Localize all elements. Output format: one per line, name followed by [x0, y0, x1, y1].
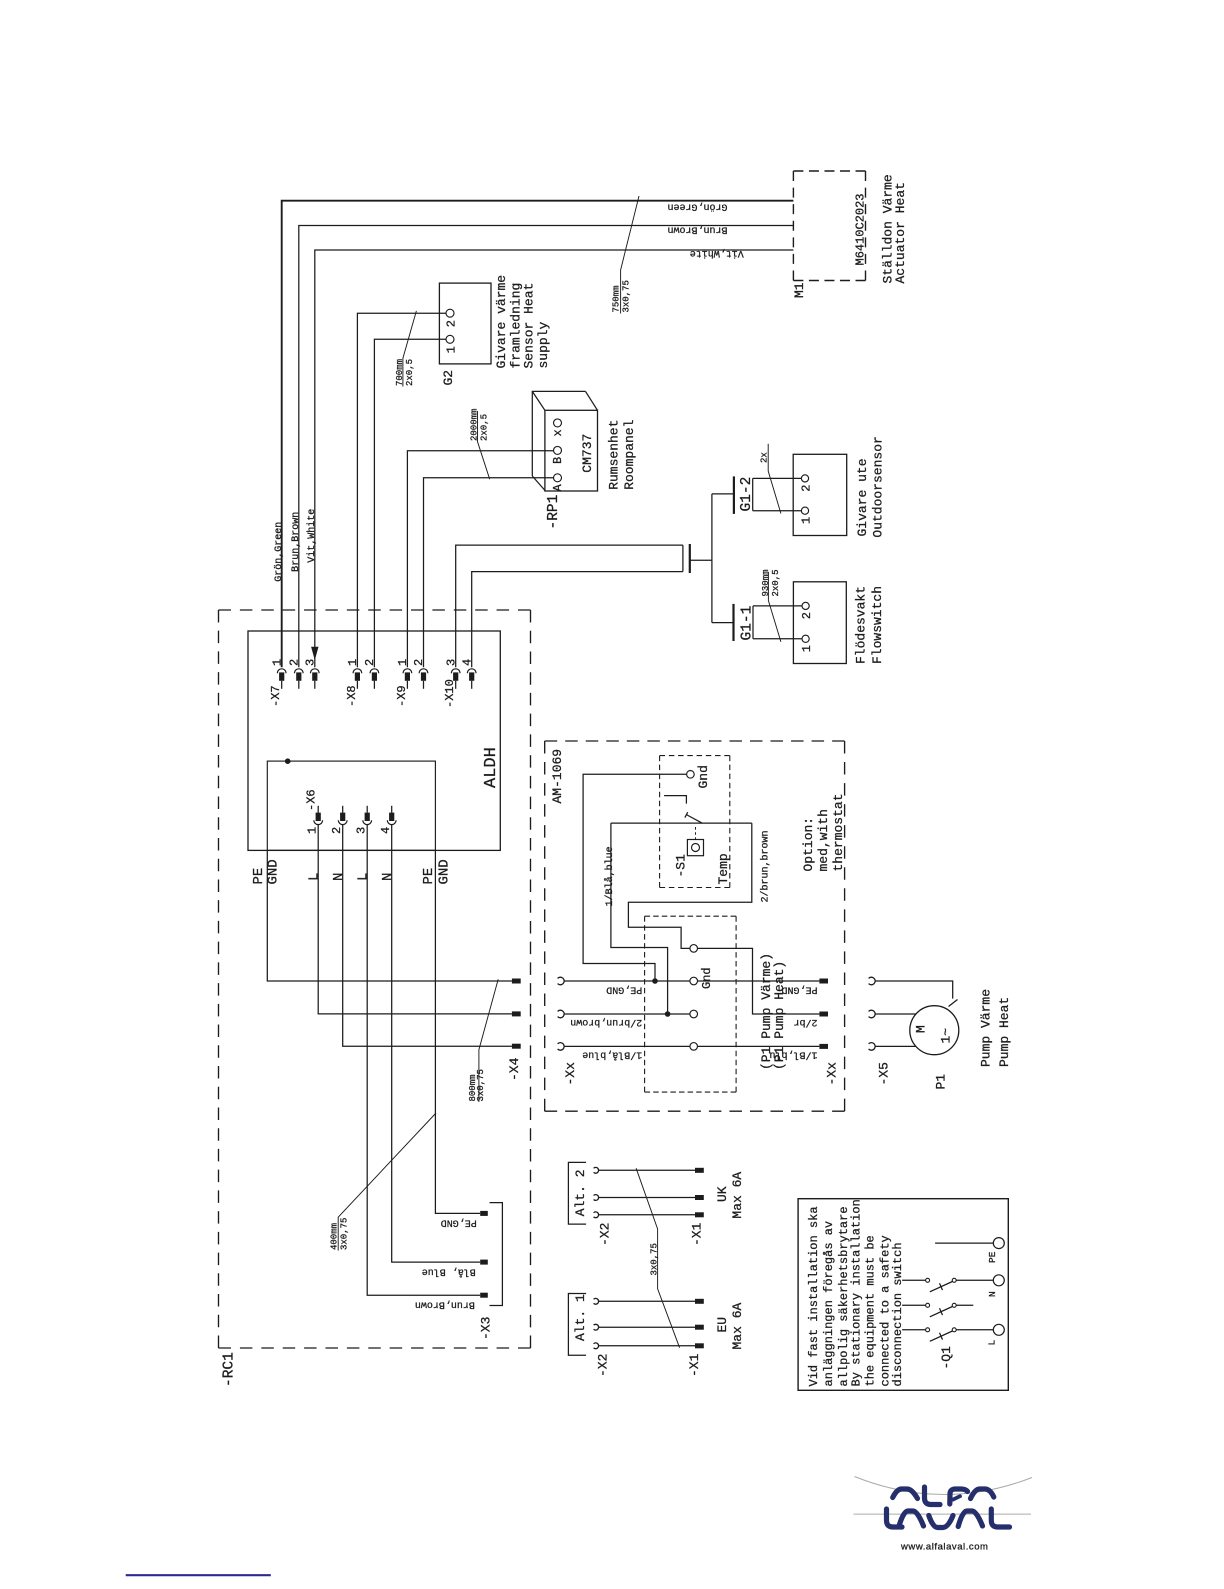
label Groen,Green (at -X7): [273, 522, 285, 582]
label 2000mm 2x0,5: [470, 409, 490, 441]
terminal -X6.1: [314, 806, 323, 825]
svg-text:AM-1069: AM-1069: [550, 749, 565, 804]
wire alt1 pin2: [599, 1326, 696, 1328]
X3 bracket: [490, 1203, 503, 1306]
wire X8.1 to G2 pin2: [357, 313, 446, 667]
label framledning: [509, 283, 524, 369]
label P1: [934, 1074, 949, 1090]
svg-text:A: A: [551, 484, 565, 492]
svg-text:4: 4: [460, 659, 474, 666]
terminal -X3.3: [480, 1293, 488, 1298]
terminal -X6.4: [387, 806, 396, 825]
svg-text:3: 3: [444, 659, 458, 666]
wire alt2 pin2: [599, 1197, 696, 1199]
terminal -X3.2: [480, 1260, 488, 1265]
label G1-2: [739, 477, 755, 512]
svg-text:700mm: 700mm: [395, 359, 405, 386]
svg-text:By stationary installation: By stationary installation: [850, 1199, 864, 1386]
G1-2 pin label 2: [800, 485, 814, 492]
RP1 pin A circle: [554, 474, 562, 482]
terminal X1 alt2 pin2: [695, 1195, 704, 1200]
svg-text:PE,GND: PE,GND: [441, 1217, 477, 1228]
hook -Xx brown: [558, 1010, 565, 1018]
svg-text:1: 1: [346, 659, 360, 666]
G1-1 pin 2 circle: [802, 602, 809, 609]
wire switch return: [628, 823, 751, 948]
label -X8: [345, 685, 359, 707]
hook X2 alt2 pin1: [594, 1167, 599, 1173]
relay dashed box: [645, 916, 737, 1092]
svg-text:M1: M1: [792, 282, 807, 298]
label 1/Bl,blu right: [769, 1048, 817, 1060]
arrow on wire X7.3: [311, 647, 318, 660]
svg-text:PE: PE: [421, 868, 437, 885]
pin label X6.4: [379, 827, 393, 834]
RP1 pin label x: [551, 429, 565, 436]
wire G1 branch vertical: [711, 494, 713, 623]
svg-text:M: M: [914, 1025, 929, 1033]
pair cable end bracket: [682, 545, 684, 572]
label Vit,White (at -X7): [306, 509, 318, 563]
label Actuator Heat: [893, 182, 908, 283]
pair connector bar: [689, 544, 691, 573]
terminal -X8.2: [370, 669, 379, 689]
svg-text:Gnd: Gnd: [696, 765, 711, 788]
hook X2 alt1 pin1: [594, 1298, 599, 1304]
svg-text:2: 2: [800, 612, 814, 619]
node dot on inner box: [285, 758, 291, 764]
leader 800mm: [479, 979, 498, 1102]
terminal -X7.2: [294, 669, 303, 689]
svg-text:Blå, Blue: Blå, Blue: [422, 1266, 476, 1279]
wire thermostat feed: [611, 823, 668, 1014]
label Groen,Green (upper): [667, 200, 727, 212]
svg-text:-X2: -X2: [596, 1354, 611, 1377]
hook X2 alt2 pin3: [594, 1212, 599, 1218]
label G2: [441, 370, 456, 386]
label PE GND left: [251, 859, 282, 884]
RP1 pin B circle: [554, 446, 562, 454]
terminal -X7.3: [310, 669, 319, 689]
svg-text:UK: UK: [715, 1186, 730, 1202]
label Max 6A UK: [730, 1172, 745, 1219]
label M1: [792, 282, 807, 298]
svg-text:750mm: 750mm: [611, 285, 621, 312]
svg-text:Vit,White: Vit,White: [306, 509, 318, 563]
svg-text:-X1: -X1: [687, 1353, 702, 1377]
terminal X1 alt2 pin3: [695, 1212, 704, 1217]
terminal -X4.3: [512, 1044, 521, 1049]
wire brown main: [564, 1013, 690, 1015]
svg-text:Pump Värme: Pump Värme: [978, 989, 993, 1067]
roompanel RP1 3D box: [532, 391, 597, 491]
svg-text:2x: 2x: [760, 452, 770, 463]
terminal -X10.4: [467, 669, 476, 689]
wire X5 brown to motor: [875, 1013, 916, 1015]
wire Gnd link to PE: [583, 774, 687, 981]
label -Q1: [939, 1346, 954, 1370]
terminal X1 alt1 pin3: [695, 1343, 704, 1348]
wire X7.2 to M1 (Brun,Brown): [299, 226, 794, 668]
G1-1 pin 1 circle: [802, 635, 809, 642]
pin label X10.3: [444, 659, 458, 666]
safety note box: [798, 1199, 1008, 1391]
label Max 6A EU: [730, 1302, 745, 1349]
leader 750mm: [621, 196, 639, 314]
PE tick at motor: [949, 1000, 958, 1007]
svg-text:thermostat: thermostat: [831, 793, 846, 871]
pump motor P1 circle: [910, 1006, 959, 1055]
temp sensor box S1: [687, 840, 703, 856]
wire to G1-1: [712, 622, 734, 624]
Alfa Laval logo: [854, 1477, 1033, 1553]
svg-text:x: x: [551, 429, 565, 436]
note text line 2: [822, 1221, 836, 1387]
svg-text:1: 1: [800, 517, 814, 524]
thermostat option dashed box: [660, 756, 730, 888]
svg-text:-X4: -X4: [507, 1057, 522, 1081]
label 700mm 2x0,5: [395, 359, 415, 386]
hook X2 alt2 pin2: [594, 1195, 599, 1201]
G1-2 pin 2 circle: [801, 475, 808, 482]
svg-text:3x0,75: 3x0,75: [650, 1243, 660, 1275]
svg-text:Brun,Brown: Brun,Brown: [667, 223, 727, 234]
label Alt. 2: [573, 1169, 588, 1216]
G2 pin label 1: [445, 346, 459, 353]
svg-text:www.alfalaval.com: www.alfalaval.com: [900, 1542, 989, 1553]
svg-text:M6410C2023: M6410C2023: [854, 193, 868, 265]
label -X6: [305, 789, 319, 811]
svg-text:P1: P1: [934, 1074, 949, 1090]
svg-text:supply: supply: [536, 321, 551, 368]
svg-text:2x0,5: 2x0,5: [405, 359, 415, 386]
label med,with: [816, 809, 831, 871]
label CM737: [580, 434, 595, 473]
svg-text:2000mm: 2000mm: [470, 409, 480, 441]
G1-1 pin label 1: [800, 645, 814, 652]
leader 400mm: [338, 1113, 436, 1251]
label -X10: [443, 679, 457, 708]
svg-text:GND: GND: [437, 859, 453, 884]
terminal -X7.1: [277, 669, 286, 689]
pin label X6.2: [330, 827, 344, 834]
note text line 6: [878, 1235, 892, 1386]
svg-text:N: N: [987, 1291, 998, 1297]
note text line 3: [837, 1206, 851, 1386]
svg-text:Actuator Heat: Actuator Heat: [893, 182, 908, 283]
svg-text:CM737: CM737: [580, 434, 595, 473]
G1-1 pin label 2: [800, 612, 814, 619]
svg-text:anläggningen föregås av: anläggningen föregås av: [822, 1221, 836, 1387]
wire switch horizontal: [611, 822, 752, 824]
terminal -Xx 2/br: [819, 1012, 828, 1017]
note text line 7: [891, 1242, 905, 1386]
junction dot brown wire: [665, 1011, 671, 1017]
svg-text:Temp: Temp: [716, 853, 731, 884]
hook -X5 blue: [869, 1043, 876, 1051]
pin label X9.1: [396, 659, 410, 666]
svg-text:-Xx: -Xx: [824, 1062, 839, 1086]
hook -Xx PE: [558, 977, 565, 985]
svg-text:2: 2: [445, 320, 459, 327]
G1-1 connector bar: [732, 604, 734, 641]
svg-text:2/br: 2/br: [793, 1016, 817, 1028]
label Givare ute: [855, 458, 870, 536]
switch S1 blade: [685, 812, 703, 823]
svg-text:2x0,5: 2x0,5: [480, 414, 490, 441]
wire PE to X4.1: [267, 850, 512, 981]
terminal -X3.1: [480, 1211, 488, 1216]
svg-text:EU: EU: [715, 1317, 730, 1333]
svg-text:-X5: -X5: [876, 1062, 891, 1085]
ALDH inner box: [267, 761, 435, 850]
label supply: [536, 321, 551, 368]
wire alt2 pin1: [599, 1169, 696, 1171]
wire G1-2 pin1: [753, 510, 802, 512]
label M6410C2023: [854, 193, 868, 265]
label 1/Blaa,blue vertical: [603, 846, 616, 906]
label Gnd connector: [700, 967, 714, 989]
leader 700mm: [403, 311, 417, 387]
label Roompanel: [622, 419, 637, 489]
svg-text:PE: PE: [987, 1251, 998, 1263]
terminal -X10.3: [451, 669, 460, 689]
pin label X10.4: [460, 659, 474, 666]
pin label X8.1: [346, 659, 360, 666]
svg-text:1: 1: [445, 346, 459, 353]
label 750mm 3x0,75: [611, 280, 631, 312]
label N X6.2: [331, 873, 347, 881]
svg-text:Max 6A: Max 6A: [730, 1172, 745, 1219]
svg-text:Flowswitch: Flowswitch: [870, 586, 885, 664]
connector circle brown: [690, 1010, 698, 1018]
svg-text:1: 1: [800, 645, 814, 652]
note text line 1: [807, 1206, 821, 1386]
wire connector to G1 branch: [690, 559, 712, 561]
connector circle sw: [690, 945, 698, 953]
terminal -X4.1: [512, 979, 521, 984]
label -X3: [479, 1317, 494, 1340]
label 800mm 3x0,75: [468, 1069, 486, 1101]
svg-text:2/brun,brown: 2/brun,brown: [570, 1016, 642, 1028]
label N X6.4: [380, 873, 396, 881]
note text line 5: [864, 1235, 878, 1386]
label 930mm 2x0,5: [761, 569, 781, 596]
label 3x0,75 alt: [650, 1243, 660, 1275]
G1-1 bracket: [752, 606, 754, 639]
svg-text:Brun,Brown: Brun,Brown: [415, 1299, 475, 1310]
label -X9: [395, 685, 409, 707]
svg-text:2/brun,brown: 2/brun,brown: [759, 830, 771, 902]
G1-2 pin label 1: [800, 517, 814, 524]
svg-text:Givare värme: Givare värme: [494, 275, 509, 369]
pin label X6.1: [306, 827, 320, 834]
label -RC1: [222, 1352, 238, 1387]
hook X2 alt1 pin2: [594, 1324, 599, 1330]
svg-text:Alt. 2: Alt. 2: [573, 1169, 588, 1216]
label L Q1: [987, 1340, 998, 1346]
label PE,GND left: [606, 984, 642, 995]
RP1 pin label A: [551, 484, 565, 492]
label PE,GND at X3: [441, 1217, 477, 1228]
label P1 Pump Vaerme: [759, 953, 774, 1070]
label M: [914, 1025, 929, 1033]
svg-text:Givare ute: Givare ute: [855, 458, 870, 536]
controller RC1 dashed box: [219, 610, 531, 1348]
pin label X6.3: [355, 827, 369, 834]
connector circle Gnd: [690, 977, 698, 985]
label Temp: [716, 853, 731, 884]
label Floedesvakt: [854, 586, 869, 664]
Q1 pole L: [902, 1324, 1004, 1341]
wire X10.4 pair bottom: [472, 572, 683, 668]
terminal -X9.2: [419, 669, 428, 689]
terminal -X9.1: [403, 669, 412, 689]
wire X6.3 to X3.3: [367, 825, 480, 1296]
label -RP1: [546, 495, 562, 530]
wire X6.1 to X4.2: [318, 825, 512, 1014]
module AM-1069 dashed box: [545, 741, 845, 1111]
wire circle sw to 2/br terminal: [698, 948, 820, 1014]
hook -X5 brown: [869, 1010, 876, 1018]
wire PE right to X3.1: [435, 850, 480, 1213]
terminal -Xx 1/Bl: [819, 1044, 828, 1049]
label -X2 alt1: [596, 1354, 611, 1377]
wire X5 blue to motor: [875, 1045, 916, 1047]
svg-text:3: 3: [304, 659, 318, 666]
G2 pin label 2: [445, 320, 459, 327]
pin label X7.3: [304, 659, 318, 666]
svg-text:Grön,Green: Grön,Green: [273, 522, 285, 582]
label Flowswitch: [870, 586, 885, 664]
label 1/Blaa,blue left: [582, 1048, 642, 1061]
label L X6.3: [356, 873, 372, 881]
svg-text:the equipment must be: the equipment must be: [864, 1235, 878, 1386]
Q1 PE wire: [935, 1242, 993, 1244]
svg-text:-X9: -X9: [395, 685, 409, 707]
note text line 4: [850, 1199, 864, 1386]
svg-text:3x0,75: 3x0,75: [339, 1218, 349, 1250]
label -X1 alt1: [687, 1353, 702, 1377]
svg-text:2: 2: [412, 659, 426, 666]
label ALDH: [482, 747, 501, 788]
pin label X8.2: [363, 659, 377, 666]
label P1 Pump Heat: [772, 961, 787, 1070]
svg-text:-X1: -X1: [690, 1222, 705, 1246]
svg-text:1: 1: [396, 659, 410, 666]
Q1 pole middle: [902, 1303, 973, 1317]
label Brun,Brown (at -X7): [291, 512, 302, 572]
label AM-1069: [550, 749, 565, 804]
svg-text:Roompanel: Roompanel: [622, 419, 637, 489]
svg-text:400mm: 400mm: [330, 1223, 340, 1250]
svg-text:Brun,Brown: Brun,Brown: [291, 512, 302, 572]
label Sensor Heat: [522, 283, 537, 369]
svg-text:ALDH: ALDH: [482, 747, 501, 788]
hook -X5 PE: [869, 977, 876, 985]
svg-text:2: 2: [800, 485, 814, 492]
wire X9.2 to RP1 A: [424, 478, 554, 668]
svg-text:3x0,75: 3x0,75: [476, 1069, 486, 1101]
svg-text:1/Blå,blue: 1/Blå,blue: [603, 846, 616, 906]
terminal -X6.3: [363, 806, 372, 825]
sensor G2 box: [439, 283, 491, 364]
wire G1-2 pin2: [753, 477, 802, 479]
label 1~: [939, 1028, 954, 1044]
label Alt. 1: [573, 1294, 588, 1341]
svg-text:-X8: -X8: [345, 685, 359, 707]
wire alt1 pin1: [599, 1300, 696, 1302]
leader 2000mm: [478, 411, 490, 479]
svg-text:-X7: -X7: [269, 685, 283, 707]
svg-text:930mm: 930mm: [761, 569, 771, 596]
wire to G1-2: [712, 493, 734, 495]
svg-text:L: L: [307, 873, 323, 881]
hook X2 alt1 pin3: [594, 1343, 599, 1349]
outdoorsensor G1-2 box: [793, 454, 847, 535]
label -X5: [876, 1062, 891, 1085]
ALDH box: [248, 631, 500, 850]
Gnd circle in option box: [687, 771, 695, 779]
G1-2 connector bar: [733, 476, 735, 514]
pin label X7.1: [270, 659, 284, 666]
pin label X7.2: [288, 659, 302, 666]
label Pump Vaerme: [978, 989, 993, 1067]
svg-text:1~: 1~: [939, 1028, 954, 1044]
label EU: [715, 1317, 730, 1333]
terminal X1 alt2 pin1: [695, 1168, 704, 1173]
label -X2 alt2: [598, 1223, 613, 1246]
Alt.2 bracket: [568, 1162, 586, 1224]
wire G1-1 pin2: [753, 605, 802, 607]
label 400mm 3x0,75: [330, 1218, 350, 1250]
svg-text:Grön,Green: Grön,Green: [667, 200, 727, 212]
svg-text:Pump Heat: Pump Heat: [997, 997, 1012, 1067]
svg-text:N: N: [380, 873, 396, 881]
label Givare vaerme: [494, 275, 509, 369]
label Brun,Brown (upper): [667, 223, 727, 234]
RP1 pin x circle: [554, 419, 562, 427]
label -X4: [507, 1057, 522, 1081]
svg-text:Gnd: Gnd: [700, 967, 714, 989]
wire X10.3 pair top: [456, 545, 683, 667]
label -X7: [269, 685, 283, 707]
label Pump Heat: [997, 997, 1012, 1067]
actuator M1 box: [793, 171, 865, 281]
terminal -X8.1: [353, 669, 362, 689]
svg-text:-X2: -X2: [598, 1223, 613, 1246]
terminal X1 alt1 pin2: [695, 1325, 704, 1330]
wire X7.1 to M1 (Groen,Green): [282, 201, 794, 668]
label -Xx left: [563, 1062, 578, 1086]
leader 930mm: [768, 572, 781, 642]
svg-text:1/Blå,blue: 1/Blå,blue: [582, 1048, 642, 1061]
wire X7.3 to M1 (Vit,White): [315, 250, 794, 667]
terminal -X4.2: [512, 1011, 521, 1016]
label Blaa, Blue at X3: [422, 1266, 476, 1279]
wire X6.2 to X4.3: [343, 825, 512, 1047]
label 2/brun,brown left: [570, 1016, 642, 1028]
terminal -X6.2: [338, 806, 347, 825]
Alt.1 bracket: [568, 1294, 586, 1356]
leader 3x0,75 alt: [636, 1168, 680, 1348]
svg-text:-X6: -X6: [305, 789, 319, 811]
terminal -Xx PE: [819, 979, 828, 984]
svg-text:Option:: Option:: [801, 817, 816, 872]
svg-text:med,with: med,with: [816, 809, 831, 871]
RP1 pin label B: [551, 457, 565, 464]
label -S1: [674, 854, 689, 878]
